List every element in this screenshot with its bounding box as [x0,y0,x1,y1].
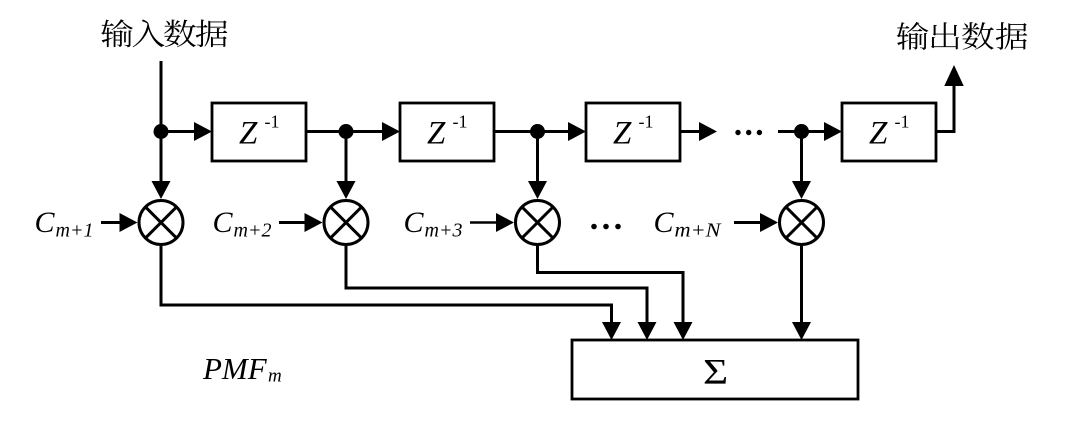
svg-text:m: m [268,366,282,387]
svg-text:PMF: PMF [202,351,268,386]
coefficient label Cm+3 [404,206,463,242]
node: junction dot 3 [530,124,545,139]
ellipsis: delay chain continuation dots [735,130,762,135]
delay block Z2 [400,103,494,161]
svg-text:C: C [404,206,425,239]
multiplier M3 [516,201,560,245]
wire+arrow: dot1 to delay Z1 [161,122,212,141]
wire+arrow: Z4 to output (up) [936,65,964,132]
svg-text:Z: Z [613,116,632,152]
delay block Z3 [586,103,680,161]
svg-text:-1: -1 [265,112,280,132]
svg-text:m+1: m+1 [56,220,94,242]
wire+arrow: dot3 to delay Z3 [538,122,587,141]
wire+arrow: Cm+2 into M2 [279,213,323,232]
wire: Z2 to dot3 [494,130,538,133]
node: junction dot 4 [794,124,809,139]
wire+arrow: tap dot4 down into multiplier M4 [792,132,811,200]
wire+arrow: Cm+1 into M1 [101,213,138,232]
wire+arrow: M1 output to summer [161,246,621,340]
wire+arrow: tap dot1 down into multiplier M1 [152,132,171,200]
wire+arrow: tap dot3 down into multiplier M3 [528,132,547,200]
coefficient label Cm+2 [213,206,272,242]
svg-text:C: C [654,206,675,239]
svg-text:-1: -1 [895,112,910,132]
wire+arrow: M4 output to summer [792,246,811,340]
svg-text:m+2: m+2 [234,220,272,242]
label: input data text 输入数据 [101,19,227,47]
svg-text:Z: Z [427,116,446,152]
coefficient label Cm+1 [35,206,94,242]
wire+arrow: dot2 to delay Z2 [346,122,400,141]
multiplier M4 [780,201,824,245]
summation block Sigma [572,340,858,399]
svg-text:C: C [35,206,56,239]
svg-text:Z: Z [239,116,258,152]
wire+arrow: dot4 to delay Z4 [802,122,843,141]
wire: Z1 to dot2 [306,130,346,133]
wire+arrow: Cm+3 into M3 [470,213,514,232]
wire: input feed vertical [160,61,163,132]
svg-text:-1: -1 [639,112,654,132]
svg-text:Z: Z [869,116,888,152]
node: junction dot 1 [154,124,169,139]
multiplier M2 [324,201,368,245]
coefficient label Cm+N [654,206,723,242]
wire+arrow: M2 output to summer [346,246,657,340]
svg-text:C: C [213,206,234,239]
delay block Z1 [212,103,306,161]
wire+arrow: Z3 output toward ellipsis [680,122,717,141]
wire+arrow: Cm+N into M4 [734,213,778,232]
label: PMFm [202,351,282,387]
wire: ellipsis to dot4 [778,130,802,133]
svg-text:m+3: m+3 [425,220,463,242]
delay block Z4 [842,103,936,161]
multiplier M1 [139,201,183,245]
svg-text:m+N: m+N [675,220,723,242]
svg-text:-1: -1 [453,112,468,132]
svg-text:Σ: Σ [703,352,728,392]
ellipsis: multiplier row continuation dots [591,224,621,230]
label: output data text 输出数据 [897,22,1028,50]
wire+arrow: M3 output to summer [538,246,693,340]
wire+arrow: tap dot2 down into multiplier M2 [337,132,356,200]
node: junction dot 2 [339,124,354,139]
